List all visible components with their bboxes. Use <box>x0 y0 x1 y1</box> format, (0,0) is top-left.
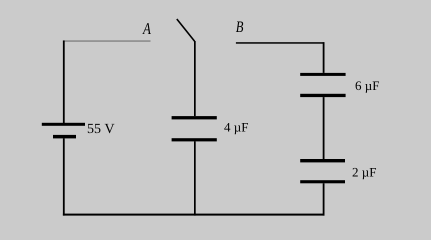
svg-text:2 µF: 2 µF <box>352 164 376 179</box>
wire: middle branch vertical upper (switch pivot to capacitor C1) <box>194 41 196 116</box>
svg-text:4 µF: 4 µF <box>224 119 248 134</box>
capacitor C3: top plate <box>300 159 345 162</box>
wire: left branch vertical lower (battery to bottom wire) <box>63 138 65 215</box>
wire: right branch vertical middle (capacitor C2 to capacitor C3) <box>323 97 325 159</box>
value label 6 uF <box>355 78 379 93</box>
switch S1 (open blade) <box>177 19 195 41</box>
capacitor C3: bottom plate <box>300 180 345 183</box>
wire: middle branch vertical lower (capacitor C1 to bottom wire) <box>194 141 196 215</box>
svg-text:55 V: 55 V <box>87 122 115 137</box>
capacitor C1: bottom plate <box>172 138 217 141</box>
capacitor C1: top plate <box>172 116 217 119</box>
svg-text:A: A <box>142 19 151 38</box>
wire: right branch vertical upper (top corner to capacitor C2) <box>323 42 325 73</box>
wire: left branch vertical upper (top corner to battery) <box>63 41 65 124</box>
value label 2 uF <box>352 164 376 179</box>
battery 55 V: short negative plate <box>53 135 76 139</box>
capacitor C2: bottom plate <box>300 94 345 97</box>
wire: right branch vertical lower (capacitor C3 to bottom wire) <box>323 183 325 215</box>
capacitor C2: top plate <box>300 73 345 76</box>
svg-text:6 µF: 6 µF <box>355 78 379 93</box>
wire: bottom horizontal return <box>63 214 325 216</box>
battery 55 V: long positive plate <box>42 123 85 126</box>
value label 55 V <box>87 122 115 137</box>
value label 4 uF <box>224 119 248 134</box>
node B <box>236 19 244 36</box>
node A <box>142 19 151 38</box>
wire: top-right horizontal from B to right branch <box>236 42 325 44</box>
svg-text:B: B <box>236 19 244 36</box>
wire: top-left horizontal from battery branch to switch contact A (gray) <box>63 40 151 42</box>
